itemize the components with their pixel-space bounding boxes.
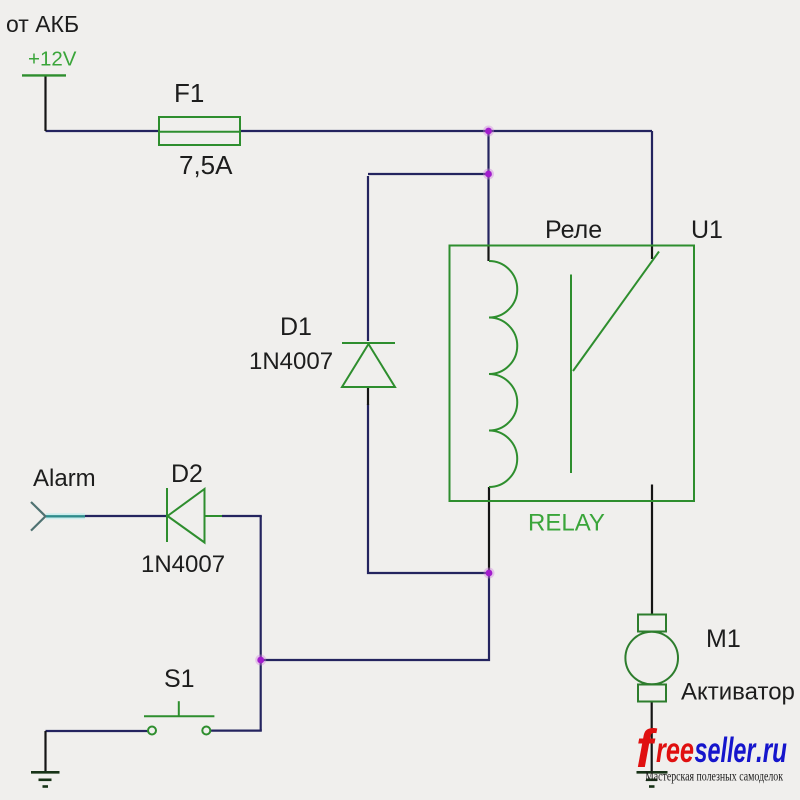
svg-text:seller: seller	[695, 731, 758, 770]
svg-text:7,5A: 7,5A	[179, 150, 233, 180]
svg-text:Alarm: Alarm	[33, 465, 96, 492]
svg-text:Мастерская полезных самоделок: Мастерская полезных самоделок	[645, 769, 783, 784]
svg-text:RELAY: RELAY	[528, 510, 605, 537]
svg-text:Реле: Реле	[545, 216, 602, 244]
svg-text:U1: U1	[691, 216, 723, 244]
svg-text:1N4007: 1N4007	[249, 348, 333, 375]
svg-text:D1: D1	[280, 313, 312, 341]
svg-text:F1: F1	[174, 78, 204, 108]
svg-text:Активатор: Активатор	[681, 679, 795, 706]
svg-text:D2: D2	[171, 460, 203, 488]
svg-text:1N4007: 1N4007	[141, 551, 225, 578]
svg-text:M1: M1	[706, 625, 741, 653]
svg-text:+12V: +12V	[28, 48, 77, 71]
svg-text:от АКБ: от АКБ	[6, 11, 79, 37]
svg-text:S1: S1	[164, 665, 195, 693]
svg-text:.ru: .ru	[756, 731, 787, 770]
svg-text:ree: ree	[656, 731, 694, 770]
